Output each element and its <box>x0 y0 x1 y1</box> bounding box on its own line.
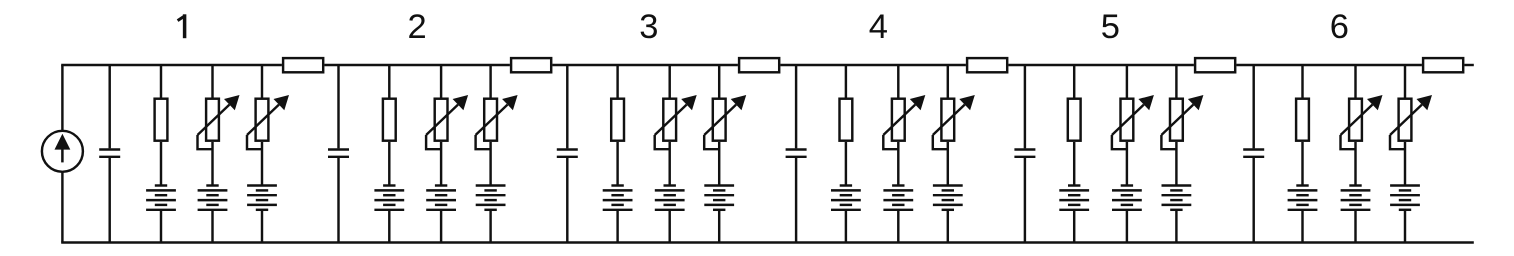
capacitor C6 <box>1243 150 1264 157</box>
wire <box>1237 64 1422 66</box>
wire <box>1175 142 1177 187</box>
battery B1c <box>247 186 277 210</box>
wire <box>388 65 390 98</box>
battery B5b <box>1112 186 1142 210</box>
battery B3a <box>603 186 633 210</box>
wire <box>440 210 442 243</box>
wire <box>1301 142 1303 187</box>
wire <box>1073 65 1075 98</box>
wire <box>1126 142 1128 187</box>
wire <box>1404 142 1406 187</box>
wire <box>160 142 162 187</box>
wire <box>718 210 720 243</box>
wire <box>566 158 568 243</box>
battery B3b <box>655 186 685 210</box>
wire <box>1252 158 1254 243</box>
wire <box>337 158 339 243</box>
rheostat VR2a <box>426 95 468 149</box>
node label 6 <box>1330 8 1349 46</box>
wire <box>1404 65 1406 98</box>
wire <box>718 142 720 187</box>
wire <box>1024 65 1026 148</box>
wire <box>1126 210 1128 243</box>
battery B5a <box>1059 186 1089 210</box>
battery B4a <box>831 186 861 210</box>
rheostat VR2b <box>476 95 518 149</box>
wire <box>1073 142 1075 187</box>
wire <box>897 65 899 98</box>
battery B6a <box>1288 186 1318 210</box>
wire <box>211 65 213 98</box>
wire <box>388 142 390 187</box>
battery B1a <box>146 186 176 210</box>
rheostat VR6b <box>1390 95 1432 149</box>
wire <box>261 65 263 98</box>
wire <box>1354 142 1356 187</box>
wire <box>668 142 670 187</box>
wire <box>897 210 899 243</box>
battery B4b <box>883 186 913 210</box>
wire <box>61 172 63 243</box>
wire <box>61 241 1474 243</box>
wire <box>61 65 63 131</box>
capacitor C4 <box>786 150 807 157</box>
wire <box>440 142 442 187</box>
rheostat VR1b <box>247 95 289 149</box>
wire <box>325 64 510 66</box>
rheostat VR1a <box>198 95 240 149</box>
capacitor C3 <box>557 150 578 157</box>
wire <box>845 142 847 187</box>
rheostat VR5a <box>1112 95 1154 149</box>
battery B4c <box>933 186 963 210</box>
resistor R6 <box>1296 99 1309 141</box>
wire <box>553 64 738 66</box>
series resistor RS2 <box>511 58 551 72</box>
wire <box>489 142 491 187</box>
series resistor RS5 <box>1195 58 1235 72</box>
wire <box>1301 210 1303 243</box>
wire <box>440 65 442 98</box>
capacitor C2 <box>328 150 349 157</box>
svg-text:2: 2 <box>408 8 427 46</box>
node label 3 <box>639 8 658 46</box>
wire <box>160 210 162 243</box>
svg-text:4: 4 <box>869 8 888 46</box>
wire <box>61 64 282 66</box>
wire <box>668 210 670 243</box>
node label 1 <box>178 14 185 38</box>
wire <box>566 65 568 148</box>
wire <box>1175 65 1177 98</box>
battery B6c <box>1390 186 1420 210</box>
wire <box>947 65 949 98</box>
wire <box>1126 65 1128 98</box>
wire <box>1354 65 1356 98</box>
svg-text:5: 5 <box>1101 8 1120 46</box>
series resistor RS1 <box>283 58 323 72</box>
wire <box>616 142 618 187</box>
rheostat VR3b <box>704 95 746 149</box>
wire <box>108 158 110 243</box>
wire <box>1175 210 1177 243</box>
wire <box>388 210 390 243</box>
capacitor C5 <box>1014 150 1035 157</box>
wire <box>616 210 618 243</box>
rheostat VR4b <box>933 95 975 149</box>
wire <box>1404 210 1406 243</box>
svg-text:6: 6 <box>1330 8 1349 46</box>
rheostat VR6a <box>1341 95 1383 149</box>
wire <box>845 210 847 243</box>
wire <box>1024 158 1026 243</box>
wire <box>489 210 491 243</box>
battery B6b <box>1341 186 1371 210</box>
battery B2c <box>476 186 506 210</box>
wire <box>781 64 966 66</box>
wire <box>1073 210 1075 243</box>
battery B2b <box>426 186 456 210</box>
battery B2a <box>374 186 404 210</box>
current source I1 <box>42 131 83 172</box>
resistor R5 <box>1068 99 1081 141</box>
wire <box>795 158 797 243</box>
resistor R1 <box>155 99 168 141</box>
wire <box>947 210 949 243</box>
wire <box>261 142 263 187</box>
rheostat VR4a <box>883 95 925 149</box>
rheostat VR3a <box>655 95 697 149</box>
resistor R3 <box>611 99 624 141</box>
wire <box>1465 64 1474 66</box>
node label 5 <box>1101 8 1120 46</box>
wire <box>718 65 720 98</box>
wire <box>1009 64 1194 66</box>
wire <box>616 65 618 98</box>
battery B3c <box>704 186 734 210</box>
wire <box>489 65 491 98</box>
wire <box>1252 65 1254 148</box>
resistor R2 <box>383 99 396 141</box>
wire <box>668 65 670 98</box>
battery B1b <box>198 186 228 210</box>
wire <box>160 65 162 98</box>
wire <box>845 65 847 98</box>
series resistor RS4 <box>967 58 1007 72</box>
rheostat VR5b <box>1161 95 1203 149</box>
wire <box>897 142 899 187</box>
wire <box>1301 65 1303 98</box>
series resistor RS6 <box>1423 58 1463 72</box>
resistor R4 <box>840 99 853 141</box>
wire <box>261 210 263 243</box>
series resistor RS3 <box>739 58 779 72</box>
svg-text:3: 3 <box>639 8 658 46</box>
wire <box>795 65 797 148</box>
node label 2 <box>408 8 427 46</box>
node label 4 <box>869 8 888 46</box>
wire <box>108 65 110 148</box>
wire <box>211 210 213 243</box>
wire <box>947 142 949 187</box>
wire <box>337 65 339 148</box>
wire <box>211 142 213 187</box>
capacitor C1 <box>99 150 120 157</box>
battery B5c <box>1162 186 1192 210</box>
wire <box>1354 210 1356 243</box>
